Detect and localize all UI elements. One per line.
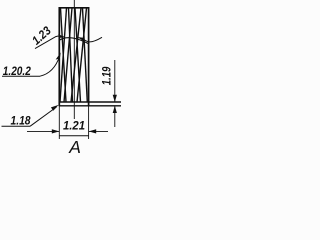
cylinder bottom edge / lower extension line <box>59 105 121 107</box>
centerline <box>73 0 75 119</box>
svg-text:1.20.2: 1.20.2 <box>3 64 31 78</box>
dimension 1.21 right arrow <box>89 129 108 133</box>
label 1.20.2 leader <box>2 52 61 76</box>
knurl line 1 <box>61 8 67 102</box>
knurl end line / upper extension line <box>59 101 121 103</box>
dimension 1.21 lower bracket line <box>59 135 89 137</box>
svg-text:1.21: 1.21 <box>63 119 85 133</box>
knurl line 8 <box>77 8 87 102</box>
svg-text:1.18: 1.18 <box>11 113 31 127</box>
svg-text:1.19: 1.19 <box>99 66 113 85</box>
dimension 1.21 extension line left <box>58 107 60 140</box>
svg-text:1.23: 1.23 <box>29 23 54 47</box>
dimension 1.19 upper arrow <box>113 60 117 102</box>
knurl line 5 <box>75 8 81 102</box>
label 1.23 leader <box>35 34 65 48</box>
label 1.18 leader <box>2 105 59 126</box>
knurl line 7 <box>83 8 88 102</box>
helix crest arc <box>59 38 89 44</box>
dimension 1.21 extension line right <box>88 107 90 140</box>
svg-text:A: A <box>68 137 81 157</box>
dimension 1.21 left arrow <box>27 129 59 133</box>
cylinder body left edge <box>58 7 60 106</box>
knurl line 4 <box>64 8 72 102</box>
knurl line 6 <box>71 8 81 102</box>
cylinder body right edge <box>88 7 90 106</box>
dimension 1.19 lower arrow <box>113 106 117 127</box>
right leader (label cropped) <box>77 37 102 42</box>
cylinder body top edge <box>59 7 89 9</box>
knurl line 3 <box>69 8 73 102</box>
knurl line 2 <box>60 8 67 102</box>
